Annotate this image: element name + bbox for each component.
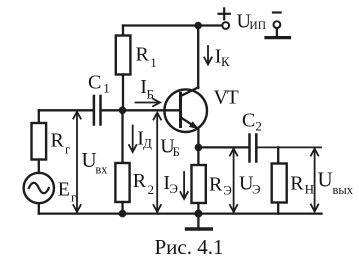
arrow Ub (154, 113, 161, 212)
node ground junction (194, 210, 202, 218)
wire R1 to base node (122, 75, 124, 111)
svg-text:г: г (65, 142, 70, 157)
wire top supply rail (123, 24, 222, 26)
wire Eg to bottom rail (38, 203, 40, 213)
capacitor C1 (94, 96, 101, 125)
svg-text:U: U (82, 148, 97, 172)
arrow Ik (204, 46, 211, 65)
wire emitter drop (197, 129, 199, 148)
capacitor C2 (250, 135, 257, 162)
label - sign (273, 11, 281, 13)
wire C1 to node (102, 109, 123, 111)
arrow Ue (230, 149, 237, 212)
wire Re to bottom rail (197, 203, 199, 214)
svg-text:Б: Б (173, 144, 180, 159)
svg-text:Э: Э (223, 182, 232, 197)
svg-text:R: R (136, 43, 150, 65)
svg-text:E: E (58, 178, 70, 200)
arrow Uvx (73, 112, 80, 212)
wire Rn to bottom rail (277, 203, 279, 214)
wire bottom rail (39, 212, 322, 214)
wire R2 drop (121, 110, 123, 163)
source Eg (24, 173, 54, 203)
svg-text:C: C (88, 72, 101, 94)
wire base (123, 109, 180, 111)
svg-text:Э: Э (169, 181, 178, 196)
resistor Rg (32, 123, 47, 160)
terminal + of Uip (222, 22, 229, 29)
wire terminal stub (276, 28, 278, 36)
wire emitter to C2 (198, 146, 248, 148)
resistor R1 (122, 26, 124, 36)
arrow Ie (180, 172, 187, 199)
arrow Ib (136, 99, 161, 106)
wire Rn drop (277, 147, 279, 163)
svg-text:1: 1 (150, 55, 157, 70)
wire R2 to bottom rail (121, 202, 123, 214)
resistor Rn (272, 164, 287, 203)
svg-text:К: К (221, 54, 230, 69)
wire source drop (38, 110, 40, 123)
svg-text:Б: Б (147, 87, 154, 102)
svg-text:Д: Д (143, 136, 152, 151)
wire C2 to output (258, 146, 321, 148)
svg-text:2: 2 (148, 182, 155, 197)
transistor VT (164, 89, 207, 132)
svg-text:г: г (71, 189, 76, 204)
svg-text:Рис. 4.1: Рис. 4.1 (155, 235, 224, 259)
svg-text:U: U (318, 168, 333, 192)
svg-text:R: R (209, 174, 223, 196)
node base junction (119, 107, 127, 115)
wire Rg to Eg (38, 160, 40, 174)
wire collector drop (197, 26, 199, 89)
node emitter junction (195, 144, 203, 152)
svg-text:Н: Н (305, 182, 314, 197)
node collector-rail junction (194, 22, 202, 30)
svg-text:вх: вх (95, 163, 108, 177)
svg-text:Э: Э (252, 182, 261, 197)
label + sign (219, 8, 230, 19)
svg-text:C: C (242, 110, 255, 132)
node R2 bottom junction (119, 210, 127, 218)
ground (197, 214, 199, 228)
resistor R2 (115, 163, 129, 202)
svg-text:R: R (51, 130, 65, 152)
svg-text:ИП: ИП (249, 20, 266, 32)
wire Re stub (197, 147, 199, 165)
svg-text:2: 2 (255, 119, 262, 134)
svg-text:R: R (290, 173, 304, 195)
svg-text:VT: VT (214, 87, 239, 109)
svg-text:1: 1 (103, 81, 110, 96)
terminal bar (266, 36, 290, 39)
svg-text:вых: вых (333, 183, 354, 197)
resistor Re (192, 165, 206, 203)
arrow Id (129, 126, 136, 153)
terminal - of Uip (274, 21, 281, 28)
arrow Uvyx (311, 149, 318, 212)
wire input to C1 (39, 109, 93, 111)
svg-text:R: R (133, 170, 147, 192)
